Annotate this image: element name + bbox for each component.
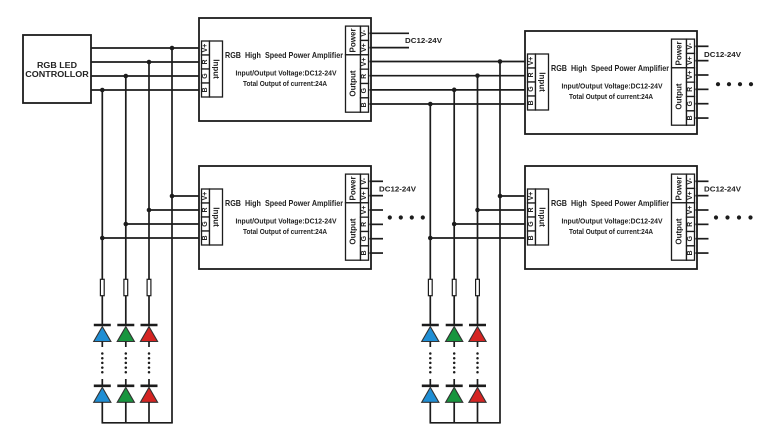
svg-text:B: B: [528, 235, 535, 240]
svg-text:R: R: [528, 207, 535, 212]
wire G branch to U4 input: [454, 223, 528, 225]
resistor R-left current-limit: [147, 279, 151, 295]
resistor B-mid current-limit: [428, 279, 432, 295]
wire R-left stub above last LED: [148, 379, 150, 386]
U3 input terminal V+: [202, 189, 210, 203]
U1 input terminal G: [202, 69, 210, 83]
svg-text:R: R: [361, 222, 368, 227]
wire U4 output B stub: [696, 252, 709, 254]
wire B drop continues to LED string: [101, 238, 103, 326]
svg-text:CONTROLLOR: CONTROLLOR: [25, 70, 89, 79]
U4 output terminal G: [687, 232, 695, 246]
svg-text:V-: V-: [361, 29, 368, 36]
U3 input terminal G: [202, 217, 210, 231]
wire G vertical drop middle: [453, 90, 455, 224]
wire U3 output B stub: [370, 252, 384, 254]
svg-text:V-: V-: [687, 177, 694, 184]
svg-text:RGB High Speed Power Amplifi: RGB High Speed Power Amplifier: [225, 198, 344, 208]
wire G-mid string conductor: [453, 325, 455, 326]
junction B at U3 branch: [100, 236, 105, 241]
wire U1 output V+ to U2 input: [370, 61, 529, 63]
wire U3 power V- stub: [370, 180, 384, 182]
ellipsis repeated LEDs B-mid: [429, 352, 432, 373]
svg-text:R: R: [687, 222, 694, 227]
resistor B-left current-limit: [100, 279, 104, 295]
svg-text:Power: Power: [349, 28, 358, 52]
wire R vertical drop middle: [477, 76, 479, 210]
svg-text:Input/Output Voltage:DC12-24V: Input/Output Voltage:DC12-24V: [562, 81, 663, 90]
wire B-mid string conductor: [429, 325, 431, 326]
wire U4 output V+ stub: [696, 209, 709, 211]
junction controller B tap: [100, 88, 105, 93]
wire B-left stub above last LED: [101, 379, 103, 386]
wire G drop continues to LED string: [125, 224, 127, 326]
wire controller V+ to U1 input: [91, 47, 203, 49]
svg-text:Total Output of current:24A: Total Output of current:24A: [569, 227, 654, 236]
wire R-left string conductor: [148, 325, 150, 326]
svg-text:R: R: [528, 72, 535, 77]
wire U3 output G stub: [370, 238, 384, 240]
wire B vertical drop left: [101, 90, 103, 238]
U4 input terminal R: [528, 203, 536, 217]
U3 output terminal B: [361, 246, 369, 260]
U2 input terminal G: [528, 82, 536, 96]
U2 voltage spec text: [562, 81, 663, 90]
junction G at U3 branch: [124, 222, 129, 227]
wire controller B to U1 input: [91, 89, 203, 91]
U1 Input label: [210, 41, 223, 97]
wire B-left string conductor: [101, 325, 103, 326]
U4 voltage spec text: [562, 216, 663, 225]
wire U1 output B to U2 input: [370, 103, 529, 105]
wire U3 output V+ stub: [370, 209, 384, 211]
wire G branch to U3 input: [126, 223, 203, 225]
ellipsis repeated LEDs R-mid: [476, 352, 479, 373]
U3 output terminal G: [361, 232, 369, 246]
wire middle V+ rail: [430, 422, 501, 424]
ellipsis continuation after U2: [716, 82, 753, 86]
svg-text:DC12-24V: DC12-24V: [704, 50, 741, 59]
svg-text:R: R: [202, 207, 209, 212]
wire V+ vertical drop left: [171, 48, 173, 423]
U1 title text: [225, 50, 344, 60]
ellipsis repeated LEDs B-left: [101, 352, 104, 373]
U3 output terminal R: [361, 217, 369, 231]
svg-text:Output: Output: [675, 83, 684, 110]
U4 power terminal V-: [687, 174, 695, 188]
svg-text:Power: Power: [675, 41, 684, 65]
svg-text:V+: V+: [687, 56, 694, 65]
U3 input terminal R: [202, 203, 210, 217]
wire B-mid stub below first LED: [429, 342, 431, 348]
wire U2 power V- stub: [696, 45, 709, 47]
U2 output terminal V+: [687, 68, 695, 82]
wire R vertical drop left: [148, 62, 150, 210]
U2 current spec text: [569, 92, 654, 101]
U3 Power label: [346, 174, 361, 203]
svg-text:Output: Output: [675, 218, 684, 245]
resistor G-left current-limit: [124, 279, 128, 295]
U4 input terminal B: [528, 231, 536, 245]
wire G middle drop continues to LED string: [453, 224, 455, 326]
svg-text:B: B: [361, 102, 368, 107]
wire R-mid stub above last LED: [477, 379, 479, 386]
U2 output terminal R: [687, 82, 695, 96]
wire G-left stub above last LED: [125, 379, 127, 386]
svg-text:G: G: [528, 221, 535, 227]
U1 output terminal R: [361, 69, 369, 83]
svg-text:DC12-24V: DC12-24V: [704, 185, 741, 194]
wire R branch to U3 input: [149, 209, 203, 211]
U4 output terminal R: [687, 217, 695, 231]
svg-text:Input/Output Voltage:DC12-24V: Input/Output Voltage:DC12-24V: [236, 216, 337, 225]
wire U1 output G to U2 input: [370, 89, 529, 91]
U2 Input label: [536, 54, 549, 110]
wire B branch to U3 input: [102, 237, 202, 239]
svg-text:RGB High Speed Power Amplifi: RGB High Speed Power Amplifier: [225, 50, 344, 60]
junction V+ at U3 branch: [170, 194, 175, 199]
wire R-left stub below first LED: [148, 342, 150, 348]
wire U4 output R stub: [696, 223, 709, 225]
wire G-left stub below first LED: [125, 342, 127, 348]
wire U1 power V- stub: [370, 32, 410, 34]
LED red DR-midb: [469, 386, 486, 403]
svg-text:Input: Input: [538, 207, 547, 227]
junction U1 output G tap: [452, 88, 457, 93]
wire U4 power V+ stub: [696, 195, 709, 197]
svg-text:V+: V+: [687, 206, 694, 215]
wire U2 output R stub: [696, 88, 709, 90]
amplifier U1 box: [199, 18, 371, 121]
U4 title text: [551, 198, 670, 208]
svg-text:V+: V+: [361, 43, 368, 52]
U4 Power label: [672, 174, 687, 203]
LED green DG-lefta: [117, 325, 134, 342]
U3 Output label: [346, 203, 361, 260]
wire R-mid stub below first LED: [477, 342, 479, 348]
U2 Power label: [672, 39, 687, 68]
wire G-mid stub above last LED: [453, 379, 455, 386]
U3 input terminal B: [202, 231, 210, 245]
U1 output terminal B: [361, 98, 369, 112]
U1 input terminal V+: [202, 41, 210, 55]
svg-text:B: B: [687, 250, 694, 255]
svg-text:Input/Output Voltage:DC12-24V: Input/Output Voltage:DC12-24V: [236, 68, 337, 77]
wire G-left string conductor: [125, 325, 127, 326]
LED green DG-mida: [446, 325, 463, 342]
U2 Output label: [672, 68, 687, 125]
label U3 DC12-24V: [379, 185, 416, 194]
U1 input terminal B: [202, 83, 210, 97]
U1 voltage spec text: [236, 68, 337, 77]
U2 output terminal B: [687, 111, 695, 125]
amplifier U2 box: [525, 31, 697, 134]
U2 input terminal V+: [528, 54, 536, 68]
LED red DR-leftb: [140, 386, 157, 403]
svg-text:R: R: [202, 59, 209, 64]
svg-text:V-: V-: [687, 42, 694, 49]
junction U1 output V+ tap: [498, 59, 503, 64]
svg-text:Input: Input: [212, 59, 221, 79]
wire left V+ rail: [102, 422, 173, 424]
svg-text:Output: Output: [349, 70, 358, 97]
ellipsis continuation after U4: [714, 215, 753, 219]
wire U1 output R to U2 input: [370, 75, 529, 77]
junction controller V+ tap: [170, 46, 175, 51]
U4 current spec text: [569, 227, 654, 236]
junction G at U4 branch: [452, 222, 457, 227]
wire U4 output G stub: [696, 238, 709, 240]
svg-text:V+: V+: [202, 44, 209, 53]
svg-text:V+: V+: [528, 192, 535, 201]
wire V+ vertical drop middle: [499, 62, 501, 423]
junction controller G tap: [124, 74, 129, 79]
wire B middle drop continues to LED string: [429, 238, 431, 326]
wire B-left stub below first LED: [101, 342, 103, 348]
label U2 DC12-24V: [704, 50, 741, 59]
ellipsis repeated LEDs G-mid: [453, 352, 456, 373]
junction U1 output R tap: [475, 73, 480, 78]
U3 output terminal V+: [361, 203, 369, 217]
svg-text:Power: Power: [675, 176, 684, 200]
U2 input terminal R: [528, 68, 536, 82]
wire U3 power V+ stub: [370, 195, 384, 197]
U4 input terminal V+: [528, 189, 536, 203]
svg-text:RGB High Speed Power Amplifi: RGB High Speed Power Amplifier: [551, 63, 670, 73]
LED blue DB-midb: [422, 386, 439, 403]
U4 power terminal V+: [687, 188, 695, 202]
wire controller G to U1 input: [91, 75, 203, 77]
U3 voltage spec text: [236, 216, 337, 225]
wire U3 output R stub: [370, 223, 384, 225]
U1 input terminal R: [202, 55, 210, 69]
wire R branch to U4 input: [478, 209, 529, 211]
U3 current spec text: [243, 227, 328, 236]
label U1 DC12-24V: [405, 36, 442, 45]
junction B at U4 branch: [428, 236, 433, 241]
U3 power terminal V-: [361, 174, 369, 188]
wire B branch to U4 input: [430, 237, 528, 239]
wire U2 output G stub: [696, 103, 709, 105]
svg-text:B: B: [528, 100, 535, 105]
wire U4 power V- stub: [696, 180, 709, 182]
svg-text:V+: V+: [361, 58, 368, 67]
wire B vertical drop middle: [429, 104, 431, 238]
svg-text:G: G: [361, 235, 368, 241]
wire V+ branch to U4 input: [500, 195, 529, 197]
svg-text:V+: V+: [687, 71, 694, 80]
svg-text:V+: V+: [528, 57, 535, 66]
svg-text:Input: Input: [212, 207, 221, 227]
svg-text:V+: V+: [361, 206, 368, 215]
U3 Input label: [210, 189, 223, 245]
U1 current spec text: [243, 79, 328, 88]
resistor R-mid current-limit: [476, 279, 480, 295]
U2 input terminal B: [528, 96, 536, 110]
LED green DG-leftb: [117, 386, 134, 403]
wire U2 output B stub: [696, 117, 709, 119]
U2 power terminal V+: [687, 53, 695, 67]
svg-text:G: G: [687, 235, 694, 241]
wire B-left string to rail: [101, 402, 103, 423]
amplifier U3 box: [199, 166, 371, 269]
wire controller R to U1 input: [91, 61, 203, 63]
U1 output terminal G: [361, 84, 369, 98]
wire V+ branch to U3 input: [172, 195, 203, 197]
LED red DR-mida: [469, 325, 486, 342]
wire G vertical drop left: [125, 76, 127, 224]
svg-text:Output: Output: [349, 218, 358, 245]
wire U2 power V+ stub: [696, 60, 709, 62]
U4 output terminal V+: [687, 203, 695, 217]
svg-text:G: G: [687, 100, 694, 106]
svg-text:Total Output of current:24A: Total Output of current:24A: [243, 79, 328, 88]
svg-text:B: B: [687, 115, 694, 120]
U1 output terminal V+: [361, 55, 369, 69]
svg-text:V+: V+: [687, 191, 694, 200]
svg-text:B: B: [361, 250, 368, 255]
svg-text:Power: Power: [349, 176, 358, 200]
svg-text:Total Output of current:24A: Total Output of current:24A: [569, 92, 654, 101]
junction controller R tap: [147, 60, 152, 65]
svg-text:Total Output of current:24A: Total Output of current:24A: [243, 227, 328, 236]
label U4 DC12-24V: [704, 185, 741, 194]
wire U2 output V+ stub: [696, 74, 709, 76]
U4 input terminal G: [528, 217, 536, 231]
ellipsis repeated LEDs R-left: [148, 352, 151, 373]
U1 Output label: [346, 55, 361, 112]
svg-text:Input/Output Voltage:DC12-24V: Input/Output Voltage:DC12-24V: [562, 216, 663, 225]
svg-text:RGB High Speed Power Amplifi: RGB High Speed Power Amplifier: [551, 198, 670, 208]
U3 title text: [225, 198, 344, 208]
U1 Power label: [346, 26, 361, 55]
wire R-mid string to rail: [477, 402, 479, 423]
wire R middle drop continues to LED string: [477, 210, 479, 326]
ellipsis continuation after U3: [388, 215, 425, 219]
wire G-mid stub below first LED: [453, 342, 455, 348]
svg-text:G: G: [202, 221, 209, 227]
RGB LED controller U0: [23, 35, 91, 103]
junction R at U3 branch: [147, 208, 152, 213]
wire B-mid stub above last LED: [429, 379, 431, 386]
wire B-mid string to rail: [429, 402, 431, 423]
svg-text:V+: V+: [202, 192, 209, 201]
LED red DR-lefta: [140, 325, 157, 342]
svg-text:DC12-24V: DC12-24V: [379, 185, 416, 194]
U4 output terminal B: [687, 246, 695, 260]
U2 power terminal V-: [687, 39, 695, 53]
LED blue DB-mida: [422, 325, 439, 342]
svg-text:G: G: [202, 73, 209, 79]
svg-text:G: G: [361, 87, 368, 93]
LED blue DB-lefta: [94, 325, 111, 342]
svg-text:V-: V-: [361, 177, 368, 184]
resistor G-mid current-limit: [452, 279, 456, 295]
U4 Input label: [536, 189, 549, 245]
svg-text:R: R: [687, 87, 694, 92]
junction U1 output B tap: [428, 102, 433, 107]
svg-text:B: B: [202, 87, 209, 92]
wire G-mid string to rail: [453, 402, 455, 423]
svg-text:B: B: [202, 235, 209, 240]
junction R at U4 branch: [475, 208, 480, 213]
U1 power terminal V+: [361, 40, 369, 54]
svg-text:RGB LED: RGB LED: [37, 61, 77, 70]
U1 power terminal V-: [361, 26, 369, 40]
wire R drop continues to LED string: [148, 210, 150, 326]
wire R-left string to rail: [148, 402, 150, 423]
U2 output terminal G: [687, 97, 695, 111]
junction V+ at U4 branch: [498, 194, 503, 199]
wire U1 power V+ stub: [370, 47, 410, 49]
svg-text:G: G: [528, 86, 535, 92]
U3 power terminal V+: [361, 188, 369, 202]
svg-text:DC12-24V: DC12-24V: [405, 36, 442, 45]
U4 Output label: [672, 203, 687, 260]
LED blue DB-leftb: [94, 386, 111, 403]
U2 title text: [551, 63, 670, 73]
wire R-mid string conductor: [477, 325, 479, 326]
LED green DG-midb: [446, 386, 463, 403]
svg-text:V+: V+: [361, 191, 368, 200]
svg-text:Input: Input: [538, 72, 547, 92]
amplifier U4 box: [525, 166, 697, 269]
ellipsis repeated LEDs G-left: [125, 352, 128, 373]
wire G-left string to rail: [125, 402, 127, 423]
svg-text:R: R: [361, 74, 368, 79]
